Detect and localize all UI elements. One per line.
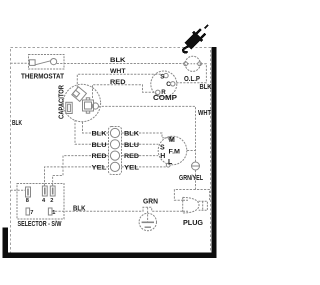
wire RED: capacitor F to compressor R <box>93 85 156 98</box>
svg-text:WHT: WHT <box>110 68 126 75</box>
svg-text:CAPACITOR: CAPACITOR <box>59 85 66 119</box>
overload protector O.L.P <box>185 56 200 71</box>
wire: connector YEL row to fan motor L <box>122 166 167 168</box>
connector block <box>109 127 122 175</box>
svg-text:YEL: YEL <box>124 164 139 171</box>
wire: ground symbol stem <box>147 207 149 222</box>
svg-text:BLK: BLK <box>12 120 22 127</box>
selector switch <box>17 184 64 220</box>
wire: connector RED row to fan motor H <box>122 155 159 157</box>
wire: connector BLU row to capacitor <box>75 120 109 144</box>
svg-text:1: 1 <box>52 210 55 216</box>
wire: connector YEL row to selector pin 4 <box>45 167 109 186</box>
svg-text:M: M <box>169 137 175 144</box>
scan edge bar bottom-left (raw layer) <box>3 228 8 259</box>
power plug icon (top right, raw layer) <box>183 25 208 52</box>
wire: connector RED row to selector pin 2 <box>53 156 109 186</box>
svg-text:S: S <box>160 74 164 81</box>
scan edge bar right (raw layer) <box>212 47 217 258</box>
svg-text:BLU: BLU <box>124 142 139 149</box>
wire BLK: thermostat to O.L.P <box>57 63 185 65</box>
svg-text:BLK: BLK <box>110 57 126 64</box>
svg-text:2: 2 <box>50 198 53 204</box>
scan edge bar bottom (raw layer) <box>8 252 212 258</box>
svg-text:BLK: BLK <box>73 206 86 213</box>
svg-text:S: S <box>160 145 165 152</box>
wire: connector BLK row to capacitor <box>83 122 109 134</box>
ground symbol GRN <box>139 213 156 230</box>
wire: fan motor right side to vertical <box>187 150 196 152</box>
svg-text:RED: RED <box>124 153 139 160</box>
wire BLK: selector pin 1 to plug lower prong <box>52 207 184 211</box>
svg-text:YEL: YEL <box>92 164 107 171</box>
svg-text:THERMOSTAT: THERMOSTAT <box>21 73 65 80</box>
svg-text:RED: RED <box>92 153 107 160</box>
svg-text:C: C <box>166 81 171 88</box>
fan motor F.M <box>158 136 187 165</box>
compressor COMP <box>151 71 177 97</box>
svg-text:WHT: WHT <box>198 110 212 117</box>
capacitor C1 <box>63 84 100 121</box>
svg-text:GRN/YEL: GRN/YEL <box>179 175 204 182</box>
svg-text:RED: RED <box>110 79 126 86</box>
svg-text:GRN: GRN <box>143 199 158 206</box>
svg-text:7: 7 <box>30 210 33 216</box>
svg-text:SELECTOR - S/W: SELECTOR - S/W <box>18 221 62 228</box>
svg-text:COMP: COMP <box>153 95 177 102</box>
svg-text:BLK: BLK <box>92 131 107 138</box>
svg-text:4: 4 <box>42 198 46 204</box>
svg-text:O.L.P: O.L.P <box>184 76 200 83</box>
svg-text:H: H <box>160 153 165 160</box>
wire WHT: capacitor H to compressor S <box>77 74 163 87</box>
plug symbol <box>183 197 208 213</box>
unit enclosure dashed border <box>11 48 211 257</box>
thermostat <box>29 55 65 70</box>
svg-text:PLUG: PLUG <box>183 220 204 227</box>
wire: left border to thermostat <box>11 62 30 64</box>
wire: O.L.P to compressor C via right jog <box>177 64 207 83</box>
wire: connector BLK row to fan motor M <box>122 133 169 138</box>
wire WHT: capacitor right pin down right side to earth terminal <box>98 106 195 162</box>
svg-text:BLK: BLK <box>200 84 212 91</box>
svg-text:L: L <box>168 159 173 166</box>
wire: left border to selector pin 8 <box>11 189 26 191</box>
svg-text:8: 8 <box>26 198 29 204</box>
svg-text:F.M: F.M <box>169 149 181 156</box>
svg-text:BLU: BLU <box>92 142 107 149</box>
wire: earth terminal to plug area, right branch <box>196 170 210 201</box>
wire: earth terminal left branch down to plug upper prong <box>174 190 195 201</box>
earth terminal symbol <box>192 162 200 170</box>
wire: connector BLU row to fan motor S <box>122 143 159 145</box>
svg-text:BLK: BLK <box>124 131 139 138</box>
